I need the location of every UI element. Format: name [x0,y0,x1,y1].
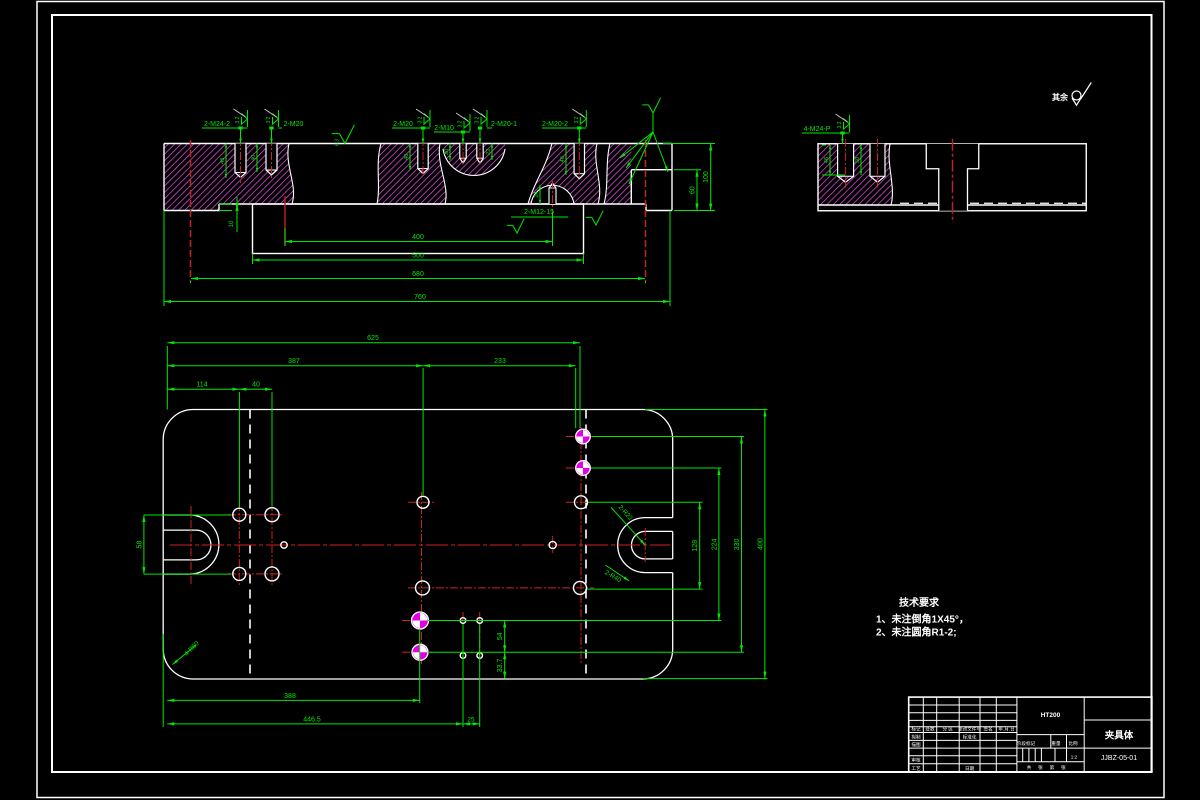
svg-text:3.2: 3.2 [574,116,580,123]
centerline plan x=645.2 [644,528,646,562]
svg-text:330: 330 [734,538,741,550]
svg-text:张: 张 [1061,764,1066,771]
dim 54 [504,621,506,653]
hole right bottom [574,581,587,594]
svg-text:拟制: 拟制 [911,734,921,741]
svg-text:40: 40 [404,154,410,160]
svg-text:500: 500 [412,253,424,260]
label 2-R22 [611,507,645,545]
svg-text:4-M24-P: 4-M24-P [804,126,831,133]
break line [596,144,600,205]
svg-text:HT200: HT200 [1041,712,1061,719]
centerline plan x=191 [190,506,192,584]
svg-text:100: 100 [703,171,710,183]
depth dims right view [829,145,831,175]
break line [604,144,610,205]
break line [288,144,294,205]
long centerline left [190,140,192,281]
hatch region block D [528,144,600,205]
dim 25 [463,723,480,725]
svg-text:1:2: 1:2 [1071,755,1078,760]
svg-text:58: 58 [136,541,143,549]
svg-text:年.月.日: 年.月.日 [998,726,1014,733]
tapped hole M24 left [235,144,246,173]
svg-text:46: 46 [824,157,830,163]
break line [443,149,505,175]
dim 446.5 [167,723,463,725]
svg-text:标准化: 标准化 [963,734,977,741]
dim 388 [167,699,419,701]
break line [439,144,446,205]
bar bottom left [164,204,219,211]
svg-text:760: 760 [414,294,426,301]
tapped hole M20 mid [418,144,428,169]
step line [818,204,1086,206]
right slot inner [631,531,672,559]
hole mid top [417,496,429,508]
svg-text:描图: 描图 [911,741,921,748]
hole right top [575,496,588,509]
bar top edge [164,143,672,145]
svg-text:3.2: 3.2 [418,116,424,123]
centerline plan x=479.7 [479,612,481,660]
centerline plan x=581 [580,427,582,664]
svg-text:阶段标记: 阶段标记 [1017,740,1036,747]
dim 40 [239,388,272,390]
svg-text:388: 388 [284,693,296,700]
label 2-R40 [605,565,629,581]
svg-text:233: 233 [494,358,506,365]
hatch right view [818,144,892,205]
hole left c [233,567,246,580]
dim 400 [764,410,766,679]
svg-text:2-M20-1: 2-M20-1 [491,121,517,128]
recess line [219,203,646,205]
centerline hole x=271.5 [271,138,273,180]
hole mid bottom [416,581,430,595]
centerline T-slot [952,139,954,223]
plate edge segment in slot [672,531,674,559]
svg-text:2、未注圆角R1-2;: 2、未注圆角R1-2; [876,626,957,639]
dim 33.7 [504,652,506,678]
dim 128 [699,502,701,589]
left slot outer [163,515,219,574]
svg-text:3.2: 3.2 [266,116,272,123]
centerline plan x=239.3 [238,503,240,586]
centerline M12 left [284,196,286,246]
small hole (463,655.5) [460,653,466,659]
tapped hole M20-2 [574,144,584,174]
centerline plan y=502.3 [566,501,594,503]
svg-text:张: 张 [1038,764,1043,771]
centerline M24a [845,139,847,188]
svg-text:40: 40 [251,155,257,161]
svg-text:128: 128 [692,540,699,552]
svg-text:10: 10 [229,220,235,227]
tapped hole M10 a [460,144,466,159]
svg-text:分 区: 分 区 [942,726,953,733]
centerline plan x=421.5 [421,492,423,664]
svg-text:2-M20: 2-M20 [393,121,413,128]
svg-text:33.7: 33.7 [497,659,504,673]
svg-text:共: 共 [1027,764,1032,771]
centerline plan x=463 [462,612,464,660]
svg-text:40: 40 [252,382,260,389]
svg-text:400: 400 [412,234,424,241]
plan view of fixture plate [163,410,673,680]
svg-text:其余: 其余 [1052,92,1069,102]
svg-text:标记: 标记 [911,726,921,733]
datum hole right 1 [576,429,591,444]
hole left a [233,508,246,521]
plate outline [163,410,673,680]
centerline hole x=240.5 [240,138,242,183]
svg-text:48: 48 [220,158,226,164]
body outline [818,144,1086,211]
main horizontal centerline [170,544,670,546]
centerline plan x=552.7 [552,536,554,553]
centerline hole x=423 [422,138,424,175]
small hole (463,620.5) [460,618,466,624]
hole left b [265,508,279,522]
T-slot [926,144,979,169]
svg-text:签名: 签名 [983,726,992,733]
svg-text:54: 54 [497,632,504,640]
svg-text:446.5: 446.5 [303,716,321,723]
lower boss plate [253,204,584,254]
dim 625 [167,342,580,344]
small hole (479.7,620.5) [477,618,483,624]
datum hole right 2 [576,461,591,476]
svg-text:更改文件号: 更改文件号 [958,726,981,733]
tapped hole M24 right view b [870,144,885,177]
right slot outer [618,518,673,573]
svg-text:20: 20 [444,149,450,155]
svg-text:30: 30 [855,157,861,163]
dimension 60 [696,170,698,211]
break line [377,144,381,205]
svg-text:3.2: 3.2 [458,120,464,127]
dim 233 [423,365,576,367]
centerline plan y=652.3 [402,651,432,653]
svg-text:处数: 处数 [925,726,935,733]
label 4-R50 [173,645,197,665]
check near recess [592,211,603,225]
hatch region block B [377,144,446,205]
svg-text:审核: 审核 [911,757,921,764]
centerline plan y=573.9 [228,573,284,575]
svg-text:2-M10: 2-M10 [434,125,454,132]
svg-text:24: 24 [534,191,540,197]
svg-text:2-M12-15: 2-M12-15 [524,209,554,216]
svg-text:JJBZ-05-01: JJBZ-05-01 [1101,755,1137,762]
centerline plan y=502.3 [408,501,436,503]
svg-text:387: 387 [288,358,300,365]
dimension 500 [253,259,584,261]
dimension 400 [285,241,553,243]
svg-text:工艺: 工艺 [911,766,921,771]
tapped hole M24 right view a [838,144,854,177]
svg-text:48: 48 [560,156,566,162]
cutting plane dashed right [585,410,587,680]
surface check top [340,125,355,144]
small hole (479.7,655.5) [477,653,483,659]
tapped hole M12 from below [549,188,556,204]
svg-text:3.2: 3.2 [235,116,241,123]
dimension 10 [236,197,238,232]
svg-text:224: 224 [711,538,718,550]
svg-text:1、未注倒角1X45°，: 1、未注倒角1X45°， [876,613,969,626]
svg-text:技术要求: 技术要求 [899,596,940,609]
svg-text:60: 60 [690,186,697,194]
svg-text:2-M24-2: 2-M24-2 [204,121,230,128]
dimension 680 [191,278,645,280]
cutting plane dashed left [249,410,251,680]
centerline plan y=468 [566,467,596,469]
depth dims section [225,144,227,179]
svg-text:25: 25 [467,717,475,724]
left slot inner [163,530,211,560]
centerline plan y=587.9 [408,587,594,589]
svg-text:680: 680 [412,271,424,278]
tapped hole M20 left2 [266,144,277,171]
hatch region left block [164,144,294,211]
datum hole bottom 2 [412,644,428,660]
bar bottom right [646,204,672,211]
break line [528,144,552,205]
centerline plan y=514.7 [228,514,284,516]
centerline plan y=436.5 [566,436,596,438]
svg-text:6.3: 6.3 [334,139,340,146]
dimension 760 [164,301,670,303]
svg-text:2-M20: 2-M20 [284,121,304,128]
hidden recess line [900,202,1086,204]
step notch [631,170,672,204]
long centerline right [645,140,647,281]
svg-text:2-M20-2: 2-M20-2 [542,121,568,128]
centerline M24b [877,139,879,188]
centerline hole x=480 [479,138,481,164]
small hole mid [549,541,556,548]
svg-text:第: 第 [1050,764,1055,771]
dim 224 [718,468,720,621]
hatch region block E [604,144,631,205]
hole left d [265,567,279,581]
title block [909,697,1152,772]
centerline hole x=463 [462,138,464,164]
svg-text:重量: 重量 [1051,740,1061,747]
dim 387 [167,365,423,367]
svg-text:400: 400 [757,538,764,550]
hatch region block C (counterbore arc) [443,144,505,176]
dim 58 [143,515,145,574]
dim 114 [167,388,239,390]
dim 330 [741,437,743,653]
svg-text:114: 114 [196,382,207,389]
small hole left [281,542,287,548]
svg-text:3.2: 3.2 [475,116,481,123]
svg-text:22: 22 [486,149,492,155]
datum hole bottom 1 [412,612,429,629]
counterbore arc M12 [531,185,574,204]
leader fan [649,98,661,113]
centerline hole x=552.5 [552,181,554,216]
dimension 100 [710,144,712,211]
svg-text:625: 625 [367,335,379,342]
centerline plan y=620.5 [402,620,432,622]
tapped hole M10 b [477,144,483,159]
svg-text:3.2: 3.2 [837,121,843,128]
centerline plan x=272 [271,503,273,586]
bar left edge [163,144,165,211]
bar right edge [671,144,673,211]
svg-text:夹具体: 夹具体 [1104,730,1134,742]
centerline hole x=579.3 [578,138,580,180]
svg-text:比例: 比例 [1068,740,1078,747]
